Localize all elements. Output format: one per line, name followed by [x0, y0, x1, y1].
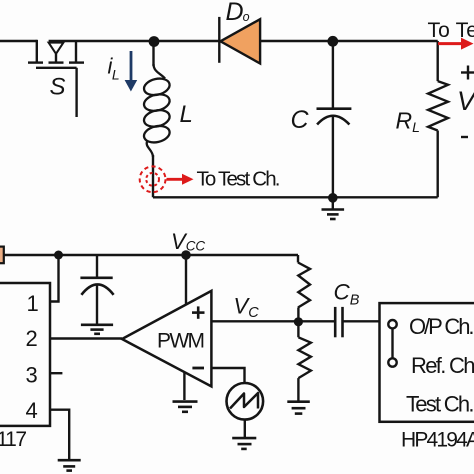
- wire Vc: [211, 320, 334, 322]
- capacitor C: [317, 41, 352, 197]
- svg-text:RL: RL: [396, 107, 420, 135]
- op-amp PWM comparator: [122, 291, 211, 400]
- inductor L: [142, 46, 171, 197]
- terminal O/P: [388, 320, 396, 328]
- svg-text:L: L: [180, 101, 193, 128]
- node D: [54, 251, 63, 260]
- wire CB to analyzer: [343, 320, 380, 322]
- minus mark (PWM): [192, 367, 204, 370]
- ground (bypass cap): [81, 325, 113, 334]
- capacitor CB: [335, 307, 342, 337]
- svg-text:1: 1: [27, 291, 39, 316]
- svg-text:Test Ch.: Test Ch.: [406, 392, 474, 417]
- wire minus input to sawtooth: [211, 368, 244, 383]
- svg-text:4: 4: [26, 398, 38, 423]
- pin 4 wire: [50, 410, 69, 461]
- red arrow To Test (top right): [438, 38, 474, 50]
- pin 2 wire to PWM: [50, 337, 122, 339]
- node B (output node): [327, 36, 338, 47]
- svg-text:Ref. Ch: Ref. Ch: [411, 353, 474, 378]
- ground (bottom rail): [322, 198, 345, 219]
- wire node D to pin1: [50, 255, 59, 302]
- wire Vcc to PWM top: [185, 255, 187, 305]
- probe point circle (red): [140, 166, 166, 192]
- svg-text:To Test: To Test: [428, 19, 474, 42]
- svg-text:HP4194A: HP4194A: [401, 428, 474, 451]
- IC U1 box: [0, 283, 50, 426]
- node Vcc: [181, 250, 191, 260]
- resistor RL: [428, 41, 448, 197]
- node C (bottom rail): [328, 193, 338, 203]
- resistor R2 (lower divider): [298, 322, 311, 402]
- instrument box HP4194A: [380, 303, 474, 422]
- component stub (orange, left edge): [0, 247, 4, 264]
- plus sign (right edge, Vo): [461, 66, 474, 80]
- sawtooth generator: [227, 383, 264, 438]
- svg-text:iL: iL: [108, 54, 120, 83]
- wire bottom rail: [153, 196, 438, 198]
- terminal Ref: [388, 358, 396, 366]
- wire drain to node: [49, 40, 220, 42]
- ground (PWM): [173, 402, 198, 412]
- node A (switch node): [149, 36, 160, 47]
- svg-text:O/P Ch.: O/P Ch.: [409, 314, 474, 339]
- ground (sawtooth): [232, 438, 256, 449]
- svg-text:V: V: [457, 86, 474, 116]
- wire Vcc rail: [4, 254, 298, 256]
- svg-text:VC: VC: [234, 294, 260, 322]
- ground (pin 4): [58, 460, 81, 470]
- pin 3 stub: [50, 372, 62, 374]
- transistor S: [28, 40, 84, 117]
- svg-text:Do: Do: [226, 0, 250, 26]
- svg-text:117: 117: [0, 428, 27, 451]
- svg-text:S: S: [50, 73, 66, 100]
- svg-text:CB: CB: [334, 280, 360, 309]
- plus mark (PWM): [192, 306, 205, 318]
- wire between terminals: [391, 328, 393, 358]
- current arrow iL: [125, 51, 138, 92]
- node Vc divider: [294, 317, 303, 326]
- ground (divider): [287, 402, 310, 414]
- capacitor (Vcc bypass): [80, 255, 113, 325]
- svg-text:3: 3: [26, 363, 38, 388]
- svg-text:C: C: [291, 106, 310, 134]
- minus sign (right edge, Vo): [461, 136, 468, 138]
- svg-text:2: 2: [26, 326, 38, 351]
- wire input left: [0, 40, 37, 42]
- resistor R1 (upper divider): [298, 255, 310, 321]
- svg-text:PWM: PWM: [157, 330, 205, 353]
- red arrow to test ch: [167, 174, 194, 185]
- diode Do: [219, 17, 332, 64]
- svg-text:To Test Ch.: To Test Ch.: [197, 168, 281, 191]
- wire to output node: [333, 40, 438, 42]
- svg-text:VCC: VCC: [171, 229, 205, 254]
